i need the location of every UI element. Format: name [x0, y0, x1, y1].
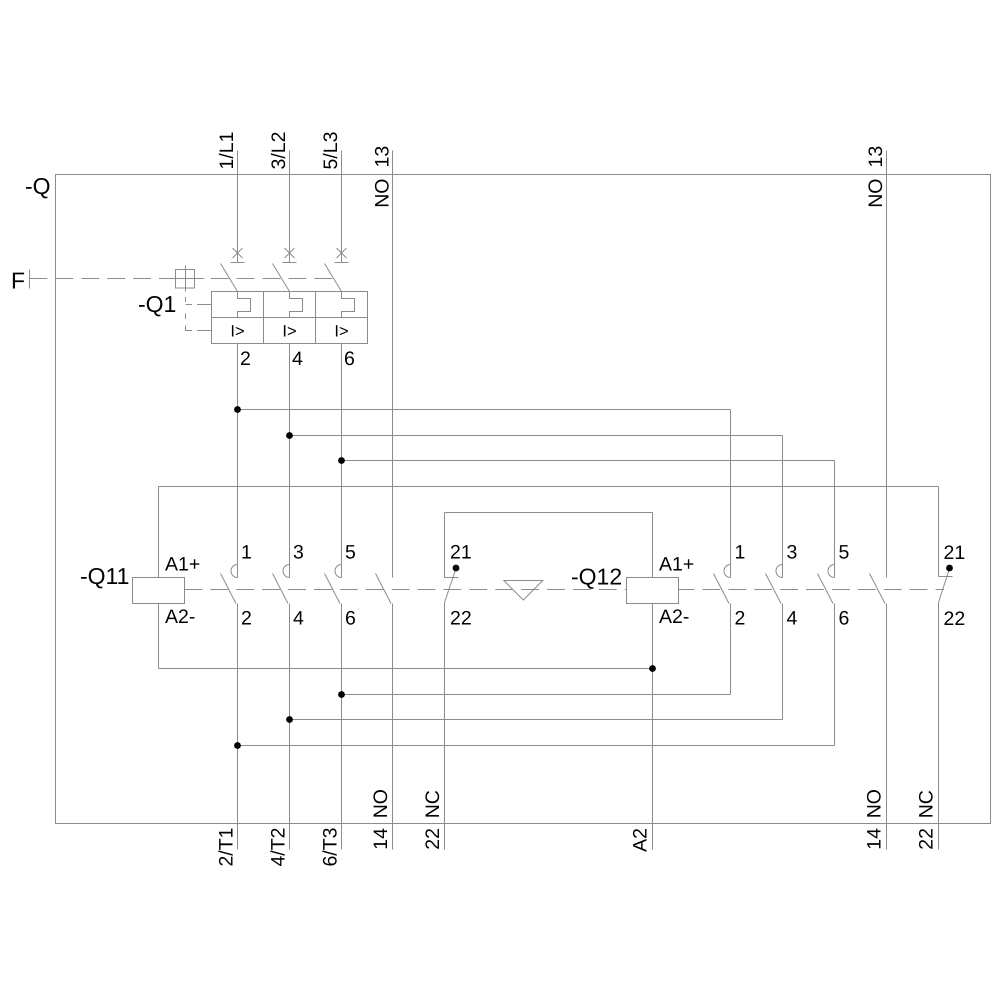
svg-text:4/T2: 4/T2: [268, 828, 290, 867]
svg-text:13: 13: [865, 146, 887, 168]
svg-text:13: 13: [371, 146, 393, 168]
svg-text:22: 22: [944, 608, 966, 630]
svg-text:6: 6: [344, 348, 355, 370]
svg-text:I>: I>: [282, 323, 296, 341]
svg-text:A1+: A1+: [659, 554, 694, 576]
svg-text:-Q: -Q: [25, 173, 51, 199]
svg-text:5/L3: 5/L3: [320, 132, 342, 170]
svg-text:4: 4: [787, 608, 798, 630]
svg-text:14: 14: [864, 828, 886, 850]
svg-text:5: 5: [839, 542, 850, 564]
svg-text:6/T3: 6/T3: [320, 828, 342, 867]
svg-text:1: 1: [241, 542, 252, 564]
svg-text:3: 3: [787, 542, 798, 564]
svg-text:NC: NC: [916, 790, 938, 818]
svg-text:F: F: [11, 268, 25, 294]
svg-text:4: 4: [292, 348, 303, 370]
svg-text:NO: NO: [371, 179, 393, 208]
svg-text:NO: NO: [864, 789, 886, 818]
svg-text:5: 5: [345, 542, 356, 564]
svg-text:22: 22: [916, 828, 938, 850]
svg-text:1/L1: 1/L1: [216, 132, 238, 170]
svg-text:3/L2: 3/L2: [268, 132, 290, 170]
svg-text:A2: A2: [630, 828, 652, 852]
svg-text:22: 22: [422, 828, 444, 850]
svg-text:I>: I>: [334, 323, 348, 341]
svg-text:A1+: A1+: [165, 554, 200, 576]
svg-text:3: 3: [293, 542, 304, 564]
svg-text:A2-: A2-: [659, 606, 689, 628]
svg-text:22: 22: [450, 608, 472, 630]
svg-text:-Q1: -Q1: [138, 291, 176, 317]
svg-text:6: 6: [839, 608, 850, 630]
svg-text:NO: NO: [370, 789, 392, 818]
svg-text:2: 2: [240, 348, 251, 370]
svg-text:NC: NC: [422, 790, 444, 818]
svg-text:21: 21: [450, 542, 472, 564]
svg-text:6: 6: [345, 608, 356, 630]
svg-text:2: 2: [241, 608, 252, 630]
svg-text:I>: I>: [230, 323, 244, 341]
svg-text:1: 1: [735, 542, 746, 564]
svg-text:-Q11: -Q11: [80, 563, 129, 589]
svg-text:-Q12: -Q12: [571, 564, 622, 590]
svg-text:21: 21: [944, 542, 966, 564]
svg-text:NO: NO: [865, 179, 887, 208]
svg-text:4: 4: [293, 608, 304, 630]
svg-text:2/T1: 2/T1: [216, 828, 238, 867]
svg-text:A2-: A2-: [165, 606, 195, 628]
svg-text:14: 14: [370, 828, 392, 850]
svg-text:2: 2: [735, 608, 746, 630]
